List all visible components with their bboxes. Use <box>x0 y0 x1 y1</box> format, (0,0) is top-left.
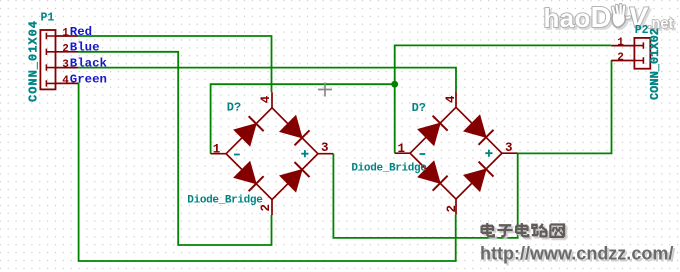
svg-text:CONN_01X02: CONN_01X02 <box>648 28 662 100</box>
watermark logo haoDV.net <box>544 2 674 34</box>
D?1 minus mark <box>234 154 240 156</box>
D?1 plus mark <box>301 150 308 157</box>
diode bridge D?1 diode W-S <box>234 162 264 192</box>
svg-text:D?: D? <box>227 101 241 115</box>
svg-text:P2: P2 <box>635 24 649 37</box>
svg-text:D: D <box>591 2 612 34</box>
junction dot negative net <box>391 81 398 88</box>
wire net Blue: P1 pin2 to bridge D?1 pin2 <box>78 52 272 245</box>
D?2 minus mark <box>420 153 426 155</box>
wire net Black: P1 pin3 to bridge D?2 pin4 <box>78 68 456 92</box>
svg-text:Green: Green <box>70 72 107 86</box>
svg-text:Black: Black <box>70 57 108 71</box>
svg-text:3: 3 <box>62 59 69 71</box>
diode bridge D?2 diode W-N <box>418 116 448 146</box>
svg-text:1: 1 <box>62 28 69 40</box>
wire net Green: P1 pin4 to bridge D?2 pin2 <box>78 83 456 261</box>
wire positive net: bridge D?1 pin3 down, right, up to bridge D?2 pin3, over and up to P2 pin2 <box>333 60 611 238</box>
diode bridge D?2 diode S-E <box>464 162 494 192</box>
svg-text:4: 4 <box>259 95 273 103</box>
origin cross marker <box>318 83 332 97</box>
diode bridge D?2 diode N-E <box>464 115 494 145</box>
svg-text:CONN_01X04: CONN_01X04 <box>26 21 40 102</box>
svg-text:2: 2 <box>62 43 69 55</box>
D?2 plus mark <box>485 150 492 157</box>
diode bridge D?1 body <box>211 92 334 215</box>
svg-text:Diode_Bridge: Diode_Bridge <box>187 194 263 206</box>
svg-text:1: 1 <box>398 142 406 156</box>
svg-text:Blue: Blue <box>70 41 100 55</box>
connector P2 pin notches <box>634 42 643 63</box>
diode bridge D?1 diode N-E <box>280 116 310 146</box>
svg-text:2: 2 <box>445 205 459 213</box>
wire negative net: bridge D?2 pin1 up, over to P2 pin1 <box>395 45 612 152</box>
connector P2 body <box>634 38 650 69</box>
svg-text:hao: hao <box>544 3 591 33</box>
connector P1 pin stubs 1-4 <box>56 36 79 83</box>
connector P2 pin stubs 1-2 <box>611 46 634 61</box>
connector P1 body <box>40 30 55 89</box>
wire net Red: P1 pin1 to bridge D?1 pin4 <box>78 36 272 92</box>
wire negative net: bridge D?1 pin1 up and right to junction <box>211 84 395 154</box>
svg-text:4: 4 <box>62 75 69 87</box>
connector P1 pin notches <box>46 33 55 87</box>
svg-text:3: 3 <box>505 141 513 155</box>
diode bridge D?2 diode W-S <box>418 161 448 191</box>
diode bridge D?1 diode W-N <box>234 116 264 146</box>
svg-text:1: 1 <box>617 37 624 49</box>
svg-text:Diode_Bridge: Diode_Bridge <box>351 163 427 175</box>
svg-text:P1: P1 <box>41 12 55 25</box>
watermark url text <box>480 244 673 264</box>
svg-text:4: 4 <box>444 95 458 103</box>
diode bridge D?2 body <box>395 92 518 215</box>
svg-text:2: 2 <box>617 52 624 64</box>
watermark text 电子电路网 (drawn glyphs) <box>482 223 564 237</box>
logo hand glyph <box>612 5 630 27</box>
svg-text:D?: D? <box>412 101 426 115</box>
svg-text:1: 1 <box>213 142 221 156</box>
svg-text:Red: Red <box>70 25 92 39</box>
svg-text:3: 3 <box>321 141 329 155</box>
diode bridge D?1 diode S-E <box>280 162 310 192</box>
svg-text:http://www.cndzz.com/: http://www.cndzz.com/ <box>480 244 673 264</box>
